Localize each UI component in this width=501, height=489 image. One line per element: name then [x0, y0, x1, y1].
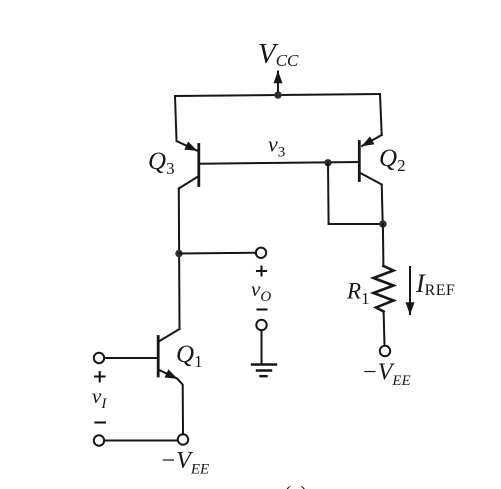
svg-text:Q2: Q2	[379, 145, 406, 175]
terminal -VEE bottom (open circle)	[178, 434, 188, 444]
terminal vO+ (open circle)	[256, 248, 266, 258]
node output junction dot	[175, 250, 182, 257]
svg-text:vO: vO	[251, 277, 271, 305]
svg-text:R1: R1	[346, 279, 370, 309]
label - (vO)	[258, 308, 267, 310]
label + (vO)	[257, 267, 266, 276]
svg-text:−VEE: −VEE	[362, 360, 411, 390]
wire Q3 collector vertical run	[178, 189, 181, 330]
transistor Q3 base bar	[197, 145, 200, 186]
terminal vO- (open circle)	[256, 320, 266, 330]
transistor Q1 collector	[159, 329, 180, 342]
svg-text:−VEE: −VEE	[160, 448, 209, 478]
svg-text:vI: vI	[92, 384, 107, 412]
label - (vI)	[96, 421, 106, 423]
terminal vI+ (open circle)	[94, 353, 104, 363]
label + (vI)	[95, 372, 105, 382]
wire dot to resistor	[382, 224, 385, 266]
wire Q2 collector drop	[382, 185, 383, 225]
svg-text:Q3: Q3	[148, 148, 175, 178]
transistor Q1 base bar	[157, 337, 160, 377]
svg-text:Q1: Q1	[176, 341, 203, 371]
terminal -VEE right (open circle)	[380, 346, 390, 356]
wire resistor to -VEE terminal	[383, 312, 386, 346]
wire Q1 emitter drop	[177, 379, 183, 435]
node v3 junction dot	[324, 159, 331, 166]
wire Q1 base lead	[104, 357, 158, 359]
transistor Q2 emitter arrow (PNP)	[362, 135, 382, 146]
wire base rail Q3-Q2 (node v3)	[199, 162, 359, 164]
wire bottom return	[104, 440, 178, 442]
wire top rail VCC	[175, 94, 380, 96]
transistor Q3 collector	[179, 176, 199, 189]
wire right drop to Q2 emitter	[380, 94, 382, 135]
svg-text:(a): (a)	[284, 482, 307, 489]
terminal vI- (open circle)	[94, 435, 104, 445]
svg-text:v3: v3	[268, 132, 285, 161]
VCC supply arrow	[277, 72, 279, 96]
wire Q2 base-collector tie	[328, 163, 383, 224]
node VCC junction dot	[274, 91, 281, 98]
wire dot to vO terminal	[179, 252, 256, 255]
transistor Q3 emitter arrow (PNP)	[177, 141, 197, 151]
svg-text:IREF: IREF	[415, 269, 455, 299]
transistor Q2 collector	[359, 173, 381, 185]
resistor R1	[374, 266, 394, 312]
svg-text:VCC: VCC	[258, 38, 299, 70]
current arrow IREF	[409, 267, 411, 314]
node Q2 collector junction dot	[379, 220, 386, 227]
wire left drop to Q3 emitter	[175, 96, 177, 141]
transistor Q2 base bar	[358, 142, 361, 181]
transistor Q1 emitter arrow (NPN)	[158, 370, 177, 379]
ground	[252, 363, 276, 365]
wire vO- to ground	[261, 330, 263, 364]
